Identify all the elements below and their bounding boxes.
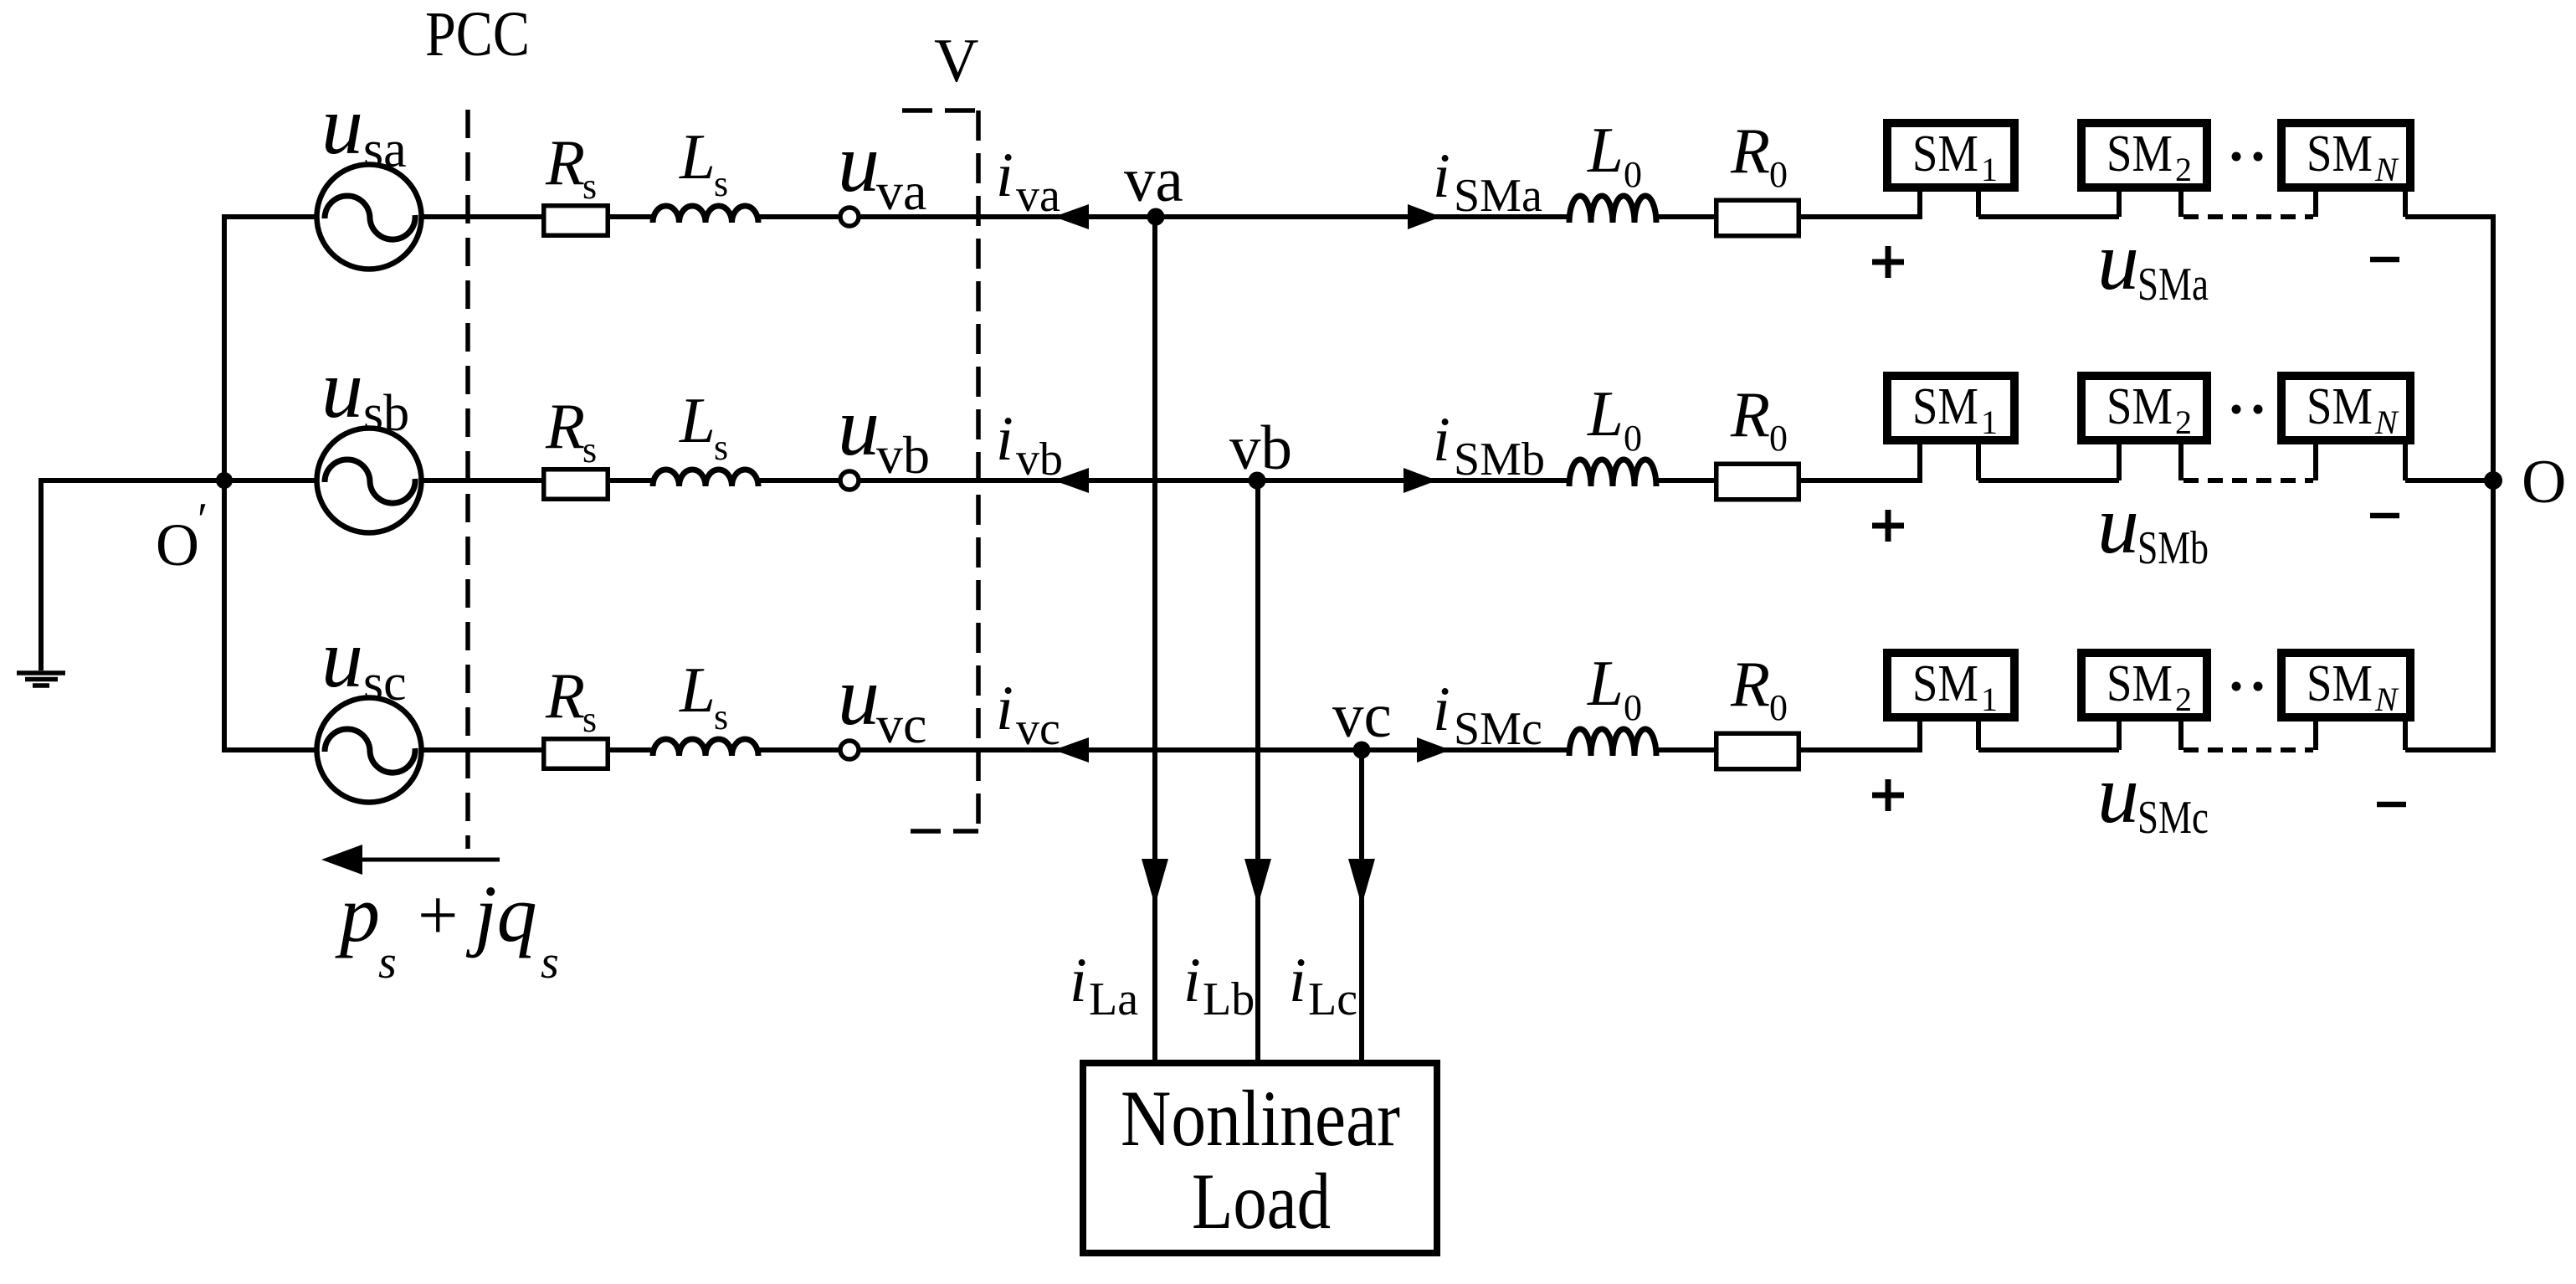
- submodule SMN (phase a): [2281, 123, 2410, 188]
- submodule SM2 (phase c): [2081, 653, 2207, 718]
- svg-text:i: i: [1289, 946, 1306, 1015]
- wire terminal to node vc: [860, 747, 1362, 752]
- label i_La: [1070, 946, 1138, 1025]
- dots between SM2 and SMN (phase a): [2232, 152, 2263, 162]
- svg-text:′: ′: [198, 494, 208, 546]
- terminal u_vc: [840, 741, 859, 759]
- svg-text:0: 0: [1624, 687, 1642, 728]
- wire L_0 to R_0 (phase c): [1659, 747, 1714, 752]
- label R_0 (phase a): [1730, 115, 1788, 195]
- label i_SMb: [1433, 405, 1545, 485]
- pin SMN left (phase b): [2313, 444, 2318, 480]
- label u_SMc: [2097, 747, 2209, 844]
- svg-text:vb: vb: [876, 425, 930, 485]
- svg-text:va: va: [1016, 170, 1060, 222]
- wire R_s to L_s (phase b): [610, 478, 654, 483]
- polarity - (phase b): [2370, 513, 2399, 519]
- svg-text:Load: Load: [1192, 1157, 1331, 1245]
- svg-text:u: u: [838, 116, 880, 209]
- wire SM1 to SM2 (phase b): [1978, 478, 2119, 483]
- svg-text:i: i: [1183, 946, 1201, 1015]
- svg-text:s: s: [378, 937, 397, 989]
- wire terminal to node va: [860, 214, 1156, 219]
- pin SM1 left (phase b): [1917, 444, 1922, 480]
- label L_s (phase b): [679, 384, 728, 468]
- wire bus to source u_sc: [224, 747, 318, 752]
- svg-text:Nonlinear: Nonlinear: [1121, 1074, 1400, 1163]
- pin SMN left (phase c): [2313, 722, 2318, 750]
- label R_0 (phase b): [1730, 378, 1788, 459]
- svg-text:Lb: Lb: [1203, 973, 1255, 1025]
- svg-text:1: 1: [1981, 403, 1998, 441]
- svg-text:i: i: [996, 674, 1013, 743]
- wire L_s to terminal u_vc: [758, 747, 839, 752]
- svg-text:SM: SM: [1912, 655, 1978, 712]
- inductor L_s (phase b): [653, 470, 758, 486]
- wire node va to nonlinear load: [1152, 217, 1157, 1061]
- wire source to R_s (phase c): [422, 747, 541, 752]
- label u_vb: [838, 380, 930, 485]
- svg-text:L: L: [1587, 377, 1624, 449]
- svg-text:u: u: [838, 650, 880, 742]
- label R_s (phase b): [545, 390, 597, 470]
- svg-text:L: L: [1587, 114, 1624, 186]
- polarity + (phase b): [1872, 510, 1904, 542]
- label R_0 (phase c): [1730, 648, 1788, 728]
- pin SM1 right (phase b): [1976, 444, 1981, 480]
- svg-text:u: u: [2097, 747, 2139, 840]
- svg-text:SM: SM: [2307, 655, 2373, 712]
- svg-text:vc: vc: [876, 695, 926, 754]
- svg-text:0: 0: [1624, 418, 1642, 459]
- active/reactive power flow arrow p_s+jq_s: [321, 845, 500, 875]
- wire node va to L_0: [1156, 214, 1571, 219]
- node vb: [1249, 472, 1266, 490]
- svg-text:vb: vb: [1229, 413, 1292, 483]
- wire L_0 to R_0 (phase a): [1659, 214, 1714, 219]
- terminal u_va: [840, 208, 859, 226]
- terminal u_vb: [840, 471, 859, 490]
- submodule SMN (phase b): [2281, 376, 2410, 441]
- wire SMN to right bus (phase a): [2405, 214, 2496, 219]
- inductor L_s (phase c): [653, 739, 758, 756]
- svg-text:0: 0: [1769, 154, 1788, 195]
- right DC-side bus wire: [2491, 214, 2496, 752]
- AC voltage source u_sc: [317, 698, 422, 803]
- wire SM1 to SM2 (phase a): [1978, 214, 2119, 219]
- svg-text:SM: SM: [1912, 126, 1978, 182]
- svg-text:u: u: [2097, 214, 2139, 307]
- wire ground to O': [38, 478, 224, 483]
- V measurement dashed bracket: [902, 110, 978, 831]
- svg-text:SM: SM: [2106, 378, 2173, 435]
- wire R_0 to SM1 pin (phase a): [1801, 214, 1922, 219]
- pin SM2 left (phase c): [2117, 722, 2122, 750]
- svg-text:SM: SM: [2106, 126, 2173, 182]
- svg-text:u: u: [838, 380, 880, 473]
- svg-text:N: N: [2374, 681, 2399, 718]
- label L_0 (phase a): [1587, 114, 1642, 195]
- label R_s (phase c): [545, 660, 597, 740]
- svg-text:s: s: [714, 427, 728, 468]
- label i_vb: [996, 404, 1063, 485]
- svg-text:s: s: [582, 429, 597, 470]
- label u_sc: [321, 612, 407, 711]
- label u_vc: [838, 650, 926, 754]
- svg-text:R: R: [1730, 648, 1770, 720]
- inductor L_0 (phase a): [1569, 196, 1656, 223]
- resistor R_s (phase a): [544, 206, 608, 236]
- node O: [2484, 448, 2566, 516]
- label L_s (phase a): [679, 121, 728, 204]
- label p_s + j q_s: [335, 869, 559, 989]
- svg-text:SMa: SMa: [1454, 170, 1542, 222]
- svg-text:L: L: [679, 654, 716, 726]
- dashed wire SM2 to SMN (phase b): [2183, 478, 2313, 483]
- svg-text:SM: SM: [2307, 126, 2373, 182]
- svg-text:SMb: SMb: [1454, 434, 1545, 485]
- svg-text:2: 2: [2175, 681, 2192, 718]
- current arrow i_SMc: [1417, 737, 1450, 763]
- resistor R_0 (phase c): [1716, 733, 1799, 769]
- pin SMN right (phase b): [2403, 444, 2408, 480]
- resistor R_s (phase c): [544, 739, 608, 769]
- label u_SMb: [2097, 478, 2209, 574]
- svg-text:i: i: [1433, 141, 1450, 211]
- wire node vc to L_0: [1362, 747, 1571, 752]
- label L_s (phase c): [679, 654, 728, 737]
- svg-text:SMa: SMa: [2137, 259, 2209, 311]
- pin SM2 right (phase c): [2178, 722, 2183, 750]
- inductor L_s (phase a): [653, 206, 758, 223]
- wire SMN to right bus (phase b): [2405, 478, 2496, 483]
- label i_va: [996, 141, 1060, 222]
- label u_sb: [321, 342, 409, 442]
- current arrow i_vc: [1054, 737, 1089, 763]
- svg-text:s: s: [582, 166, 597, 207]
- svg-text:+: +: [418, 875, 459, 955]
- svg-text:s: s: [541, 937, 559, 989]
- pin SMN left (phase a): [2313, 192, 2318, 217]
- svg-text:SM: SM: [2106, 655, 2173, 712]
- wire L_s to terminal u_va: [758, 214, 839, 219]
- pin SM1 left (phase c): [1917, 722, 1922, 750]
- svg-text:vc: vc: [1332, 681, 1392, 751]
- svg-text:2: 2: [2175, 151, 2192, 188]
- polarity + (phase a): [1872, 246, 1904, 278]
- load current arrow i_La: [1142, 859, 1168, 906]
- wire node vc to nonlinear load: [1359, 750, 1364, 1061]
- resistor R_s (phase b): [544, 470, 608, 500]
- pin SM1 right (phase c): [1976, 722, 1981, 750]
- svg-text:0: 0: [1769, 687, 1788, 728]
- AC voltage source u_sa: [317, 165, 422, 270]
- pin SM2 right (phase a): [2178, 192, 2183, 217]
- current arrow i_SMb: [1403, 468, 1437, 493]
- svg-text:va: va: [876, 162, 926, 221]
- svg-text:i: i: [996, 404, 1013, 474]
- svg-text:1: 1: [1981, 151, 1998, 188]
- wire SM1 to SM2 (phase c): [1978, 747, 2119, 752]
- label u_va: [838, 116, 926, 221]
- svg-text:u: u: [2097, 478, 2139, 571]
- dots between SM2 and SMN (phase b): [2232, 405, 2263, 414]
- svg-text:sb: sb: [363, 385, 409, 442]
- svg-text:1: 1: [1981, 681, 1998, 718]
- wire source to R_s (phase b): [422, 478, 541, 483]
- svg-text:R: R: [1730, 115, 1770, 187]
- svg-text:vb: vb: [1016, 434, 1063, 485]
- submodule SM1 (phase b): [1887, 376, 2014, 441]
- label i_SMa: [1433, 141, 1542, 222]
- current arrow i_va: [1054, 204, 1089, 229]
- ground: [17, 480, 65, 686]
- svg-text:V: V: [934, 27, 978, 95]
- svg-text:R: R: [545, 660, 585, 732]
- svg-text:SMc: SMc: [1454, 703, 1542, 755]
- node va: [1147, 208, 1165, 226]
- wire R_0 to SM1 pin (phase b): [1801, 478, 1922, 483]
- dashed wire SM2 to SMN (phase c): [2183, 747, 2313, 752]
- pin SM2 left (phase a): [2117, 192, 2122, 217]
- label i_Lc: [1289, 946, 1357, 1025]
- node vc: [1353, 742, 1371, 759]
- svg-text:u: u: [321, 79, 363, 172]
- wire bus to source u_sb: [224, 478, 318, 483]
- label L_0 (phase c): [1587, 647, 1642, 728]
- wire L_0 to R_0 (phase b): [1659, 478, 1714, 483]
- svg-text:L: L: [679, 121, 716, 193]
- current arrow i_SMa: [1408, 204, 1441, 229]
- svg-text:R: R: [545, 390, 585, 462]
- load current arrow i_Lb: [1244, 859, 1271, 906]
- load current arrow i_Lc: [1348, 859, 1375, 906]
- svg-text:L: L: [679, 384, 716, 456]
- svg-text:u: u: [321, 612, 363, 705]
- svg-text:vc: vc: [1016, 703, 1060, 755]
- svg-text:s: s: [582, 699, 597, 740]
- submodule SM2 (phase b): [2081, 376, 2207, 441]
- PCC boundary dashed line: [465, 110, 470, 849]
- svg-text:N: N: [2374, 403, 2399, 441]
- svg-text:N: N: [2374, 151, 2399, 188]
- inductor L_0 (phase b): [1569, 460, 1656, 486]
- dots between SM2 and SMN (phase c): [2232, 682, 2263, 691]
- resistor R_0 (phase a): [1716, 200, 1799, 236]
- polarity - (phase c): [2377, 802, 2406, 808]
- polarity + (phase c): [1872, 779, 1904, 811]
- wire bus to source u_sa: [224, 214, 318, 219]
- submodule SM1 (phase a): [1887, 123, 2014, 188]
- svg-text:p: p: [335, 869, 380, 958]
- svg-text:i: i: [1433, 405, 1450, 475]
- svg-text:0: 0: [1624, 154, 1642, 195]
- svg-text:O: O: [2522, 448, 2566, 516]
- label i_Lb: [1183, 946, 1255, 1025]
- submodule SMN (phase c): [2281, 653, 2410, 718]
- svg-text:i: i: [1070, 946, 1087, 1015]
- svg-text:La: La: [1089, 973, 1138, 1025]
- svg-text:R: R: [1730, 378, 1770, 450]
- left neutral bus wire: [222, 214, 227, 752]
- dashed wire SM2 to SMN (phase a): [2183, 214, 2313, 219]
- svg-text:SM: SM: [1912, 378, 1978, 435]
- svg-text:i: i: [996, 141, 1013, 210]
- submodule SM1 (phase c): [1887, 653, 2014, 718]
- svg-text:O: O: [156, 511, 199, 578]
- svg-text:sa: sa: [363, 121, 407, 178]
- nonlinear load box: [1083, 1063, 1437, 1253]
- svg-text:jq: jq: [465, 869, 537, 958]
- label i_vc: [996, 674, 1060, 755]
- svg-text:R: R: [545, 126, 585, 198]
- current arrow i_vb: [1054, 468, 1089, 493]
- wire SMN to right bus (phase c): [2405, 747, 2496, 752]
- svg-text:s: s: [714, 163, 728, 204]
- polarity - (phase a): [2370, 257, 2399, 263]
- pin SM2 left (phase b): [2117, 444, 2122, 480]
- wire node vb to nonlinear load: [1255, 480, 1260, 1061]
- submodule SM2 (phase a): [2081, 123, 2207, 188]
- pin SM1 left (phase a): [1917, 192, 1922, 217]
- svg-text:SM: SM: [2307, 378, 2373, 435]
- wire R_s to L_s (phase c): [610, 747, 654, 752]
- svg-text:2: 2: [2175, 403, 2192, 441]
- svg-text:Lc: Lc: [1308, 973, 1357, 1025]
- label L_0 (phase b): [1587, 377, 1642, 459]
- label u_sa: [321, 79, 407, 178]
- svg-text:0: 0: [1769, 418, 1788, 459]
- wire R_0 to SM1 pin (phase c): [1801, 747, 1922, 752]
- pin SMN right (phase a): [2403, 192, 2408, 217]
- wire node vb to L_0: [1257, 478, 1571, 483]
- pin SM2 right (phase b): [2178, 444, 2183, 480]
- label u_SMa: [2097, 214, 2209, 311]
- label i_SMc: [1433, 675, 1542, 755]
- wire R_s to L_s (phase a): [610, 214, 654, 219]
- pin SMN right (phase c): [2403, 722, 2408, 750]
- svg-text:SMb: SMb: [2137, 522, 2209, 574]
- resistor R_0 (phase b): [1716, 464, 1799, 500]
- label R_s (phase a): [545, 126, 597, 207]
- pin SM1 right (phase a): [1976, 192, 1981, 217]
- svg-text:u: u: [321, 342, 363, 435]
- svg-text:s: s: [714, 696, 728, 737]
- svg-text:i: i: [1433, 675, 1450, 744]
- svg-text:va: va: [1124, 146, 1183, 215]
- svg-text:PCC: PCC: [425, 0, 530, 69]
- wire terminal to node vb: [860, 478, 1257, 483]
- svg-text:sc: sc: [363, 655, 407, 711]
- node O': [156, 472, 233, 578]
- inductor L_0 (phase c): [1569, 729, 1656, 756]
- svg-text:SMc: SMc: [2137, 792, 2209, 844]
- wire source to R_s (phase a): [422, 214, 541, 219]
- AC voltage source u_sb: [317, 429, 422, 533]
- svg-text:L: L: [1587, 647, 1624, 719]
- wire L_s to terminal u_vb: [758, 478, 839, 483]
